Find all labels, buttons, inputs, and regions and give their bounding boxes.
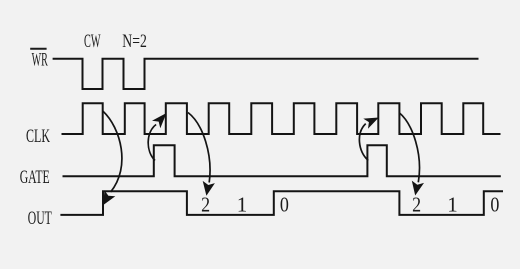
svg-text:CW: CW [84,31,101,52]
svg-text:0: 0 [490,192,499,216]
svg-text:2: 2 [201,192,210,216]
WR waveform [53,59,479,89]
arrow CLK falling edge to count load 2 (first) [188,113,215,196]
CLK waveform [62,103,501,134]
svg-text:OUT: OUT [28,208,52,229]
svg-text:1: 1 [447,192,458,216]
arrow GATE trigger 1 to CLK rising edge [148,113,166,161]
svg-text:2: 2 [412,192,421,216]
GATE waveform [63,145,501,176]
svg-text:0: 0 [280,192,289,216]
svg-text:CLK: CLK [26,126,50,147]
arrow GATE trigger 2 to CLK rising edge [359,118,378,161]
arrow CLK falling edge to count load 2 (second) [399,113,424,196]
OUT waveform [60,191,503,215]
svg-text:WR: WR [32,49,48,70]
svg-text:1: 1 [237,192,248,216]
svg-text:GATE: GATE [20,167,50,188]
label WR overline [30,48,46,50]
arrow CLK falling edge to OUT rising edge [103,111,122,205]
svg-text:N=2: N=2 [122,31,147,52]
